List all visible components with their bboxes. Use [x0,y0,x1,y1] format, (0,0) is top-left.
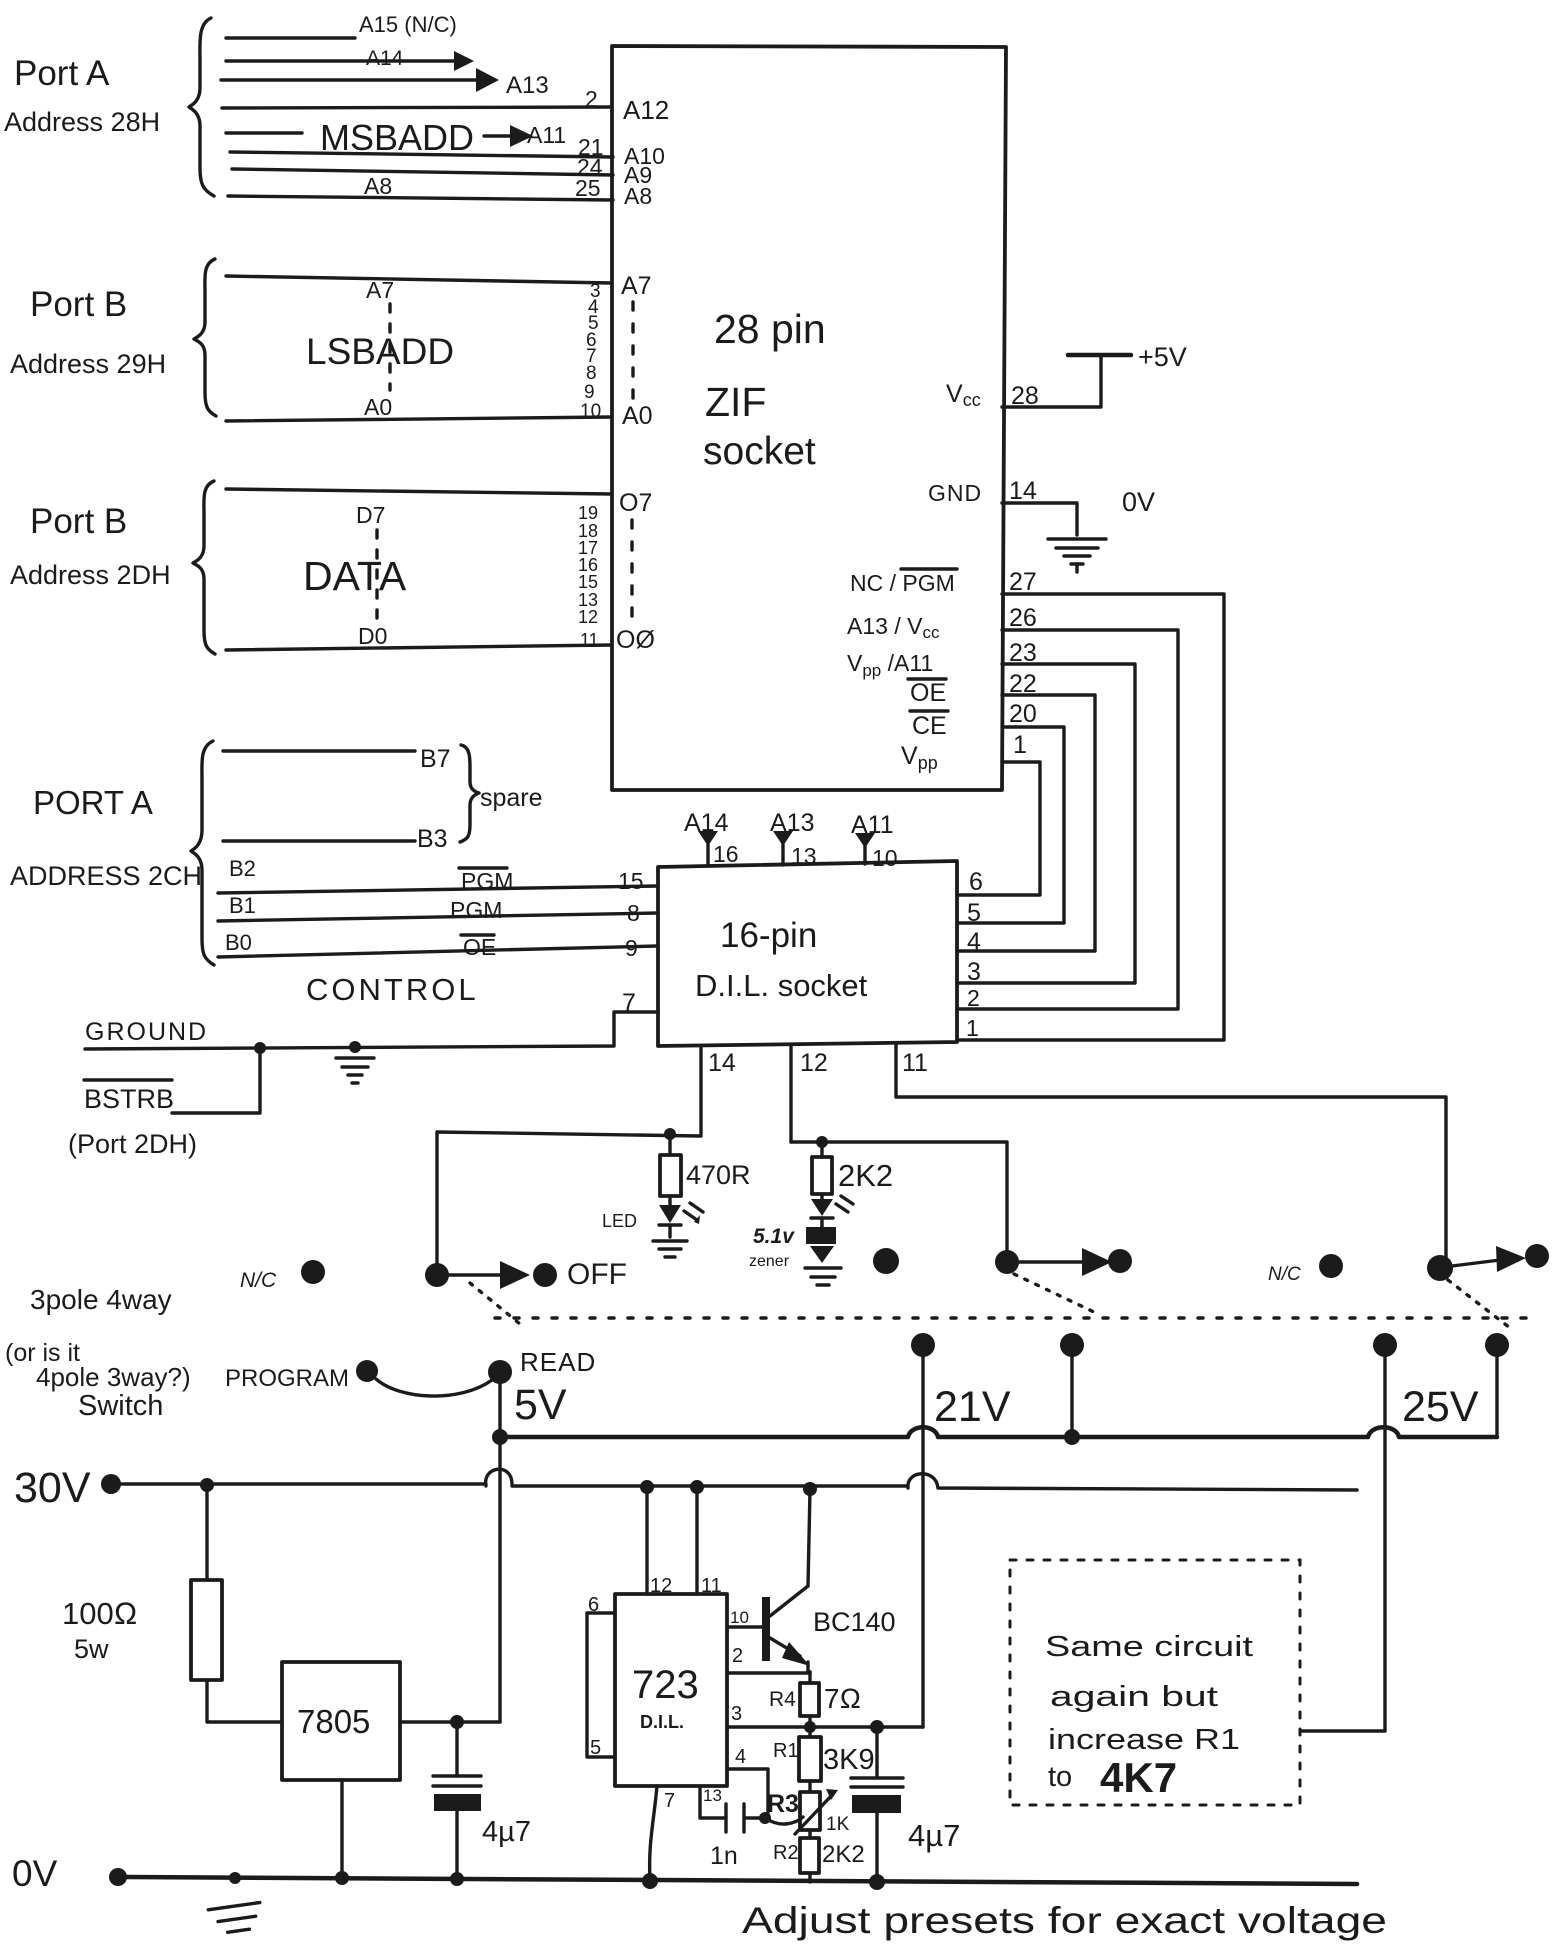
brace Port B 29H bus [194,259,216,416]
wire ZIF 20 to DIL 5 [957,727,1064,923]
capacitor C1 4u7 [433,1722,531,1878]
wire wiper link dotted 3 [1448,1280,1514,1331]
capacitor 1n [710,1804,763,1870]
svg-text:CE: CE [912,712,947,740]
resistor 2K2 [812,1142,893,1194]
junction ground symbol tap [349,1041,361,1053]
junction C2 top [870,1720,884,1734]
ground symbol 0V [1048,539,1106,572]
svg-text:GND: GND [928,480,982,506]
junction 723 pin12 tap [640,1480,654,1494]
svg-text:11: 11 [580,630,599,650]
svg-text:again but: again but [1050,1681,1218,1713]
svg-text:N/C: N/C [240,1269,277,1292]
pin 2 wire [727,1645,810,1673]
wire pin12 node to switch contact [791,1142,1007,1262]
junction cap C1 tap [450,1715,464,1729]
node contact pole2 left [873,1248,899,1274]
svg-text:PGM: PGM [450,897,502,923]
svg-text:30V: 30V [14,1464,91,1512]
brace Port B 2DH bus [193,481,215,654]
wire wiper link dotted 2 [1014,1274,1096,1313]
svg-text:4: 4 [735,1746,746,1768]
pin A11 stub [851,811,898,871]
svg-text:PORT A: PORT A [33,784,153,821]
svg-text:10: 10 [872,845,898,871]
dashed box second regulator [1010,1560,1300,1805]
wire A8 [228,196,613,200]
wire A0 to ZIF [226,417,612,421]
wire ZIF 1 to DIL 6 [957,762,1040,895]
node PORT A Address 2CH label [10,784,202,891]
wire A7 to ZIF [226,276,612,283]
regulator 723 U4 [615,1594,727,1786]
svg-text:socket: socket [703,430,816,473]
svg-text:B3: B3 [417,825,448,853]
junction 100R tap [200,1478,214,1492]
wire 5V to 7805 input [498,1437,501,1722]
svg-text:R4: R4 [769,1688,796,1711]
node OEbar label [461,934,496,960]
svg-text:3: 3 [731,1703,742,1725]
svg-text:12: 12 [800,1049,828,1077]
svg-text:D0: D0 [358,623,387,649]
ground symbol 0V rail [208,1903,263,1935]
svg-text:A0: A0 [622,402,653,430]
svg-text:27: 27 [1009,568,1037,596]
node BSTRB label [68,1080,197,1159]
resistor 470R [660,1134,751,1196]
svg-text:D7: D7 [356,502,385,528]
wire D7 to ZIF [226,489,612,494]
svg-text:OØ: OØ [616,626,655,654]
pin NC/PGM label [850,569,957,596]
svg-text:1n: 1n [710,1842,738,1870]
svg-text:10: 10 [580,401,601,422]
wire ZIF 26 to DIL 2 [957,630,1178,1009]
svg-text:R3: R3 [767,1790,799,1818]
pin A13 stub [770,809,817,869]
svg-text:Address 2DH: Address 2DH [10,560,171,590]
svg-text:B1: B1 [229,893,256,918]
svg-text:DATA: DATA [303,553,407,599]
node 28 pin ZIF socket label [703,306,826,473]
svg-text:B2: B2 [229,856,256,881]
svg-text:A0: A0 [364,394,392,420]
pin A14 stub [684,809,739,867]
node Port B Address 2DH label [10,502,171,590]
svg-text:to: to [1048,1761,1072,1793]
resistor R1 3K9 [773,1727,875,1781]
svg-text:(Port 2DH): (Port 2DH) [68,1129,197,1159]
junction C2 gnd [869,1874,885,1890]
pin 10 wire to base [727,1608,764,1627]
svg-text:11: 11 [902,1049,928,1077]
junction BSTRB on ground [254,1042,266,1054]
svg-text:25: 25 [575,175,601,201]
junction 5V rail left [492,1429,508,1445]
node rail contact 2 [1060,1333,1084,1357]
svg-text:15: 15 [618,868,644,894]
brace Port A 2CH bus [191,741,214,965]
node READ contact [488,1347,596,1384]
wire ground to DIL pin 7 [85,1012,658,1049]
pin 14 wire down [701,1046,736,1134]
preset R3 1K [767,1781,850,1835]
wire wiper link dotted 1 [470,1283,520,1324]
wire 25V contact to rail [1495,1345,1498,1437]
svg-text:GROUND: GROUND [85,1018,208,1046]
wire 723 pins 6-5 link [587,1594,615,1759]
svg-text:D.I.L. socket: D.I.L. socket [695,968,868,1003]
28 pin ZIF socket U1 [612,46,1006,790]
transistor Q1 BC140 [762,1586,896,1672]
svg-text:ZIF: ZIF [705,379,766,425]
wire collector to 30V [808,1490,810,1586]
svg-text:4µ7: 4µ7 [908,1818,960,1853]
wire 7805 ground pin [340,1780,343,1878]
wire data bus dashes [375,530,378,620]
wire bus dashes [388,304,391,390]
svg-text:R2: R2 [773,1842,799,1864]
svg-text:A7: A7 [621,272,652,300]
svg-text:25V: 25V [1402,1383,1479,1431]
svg-text:2K2: 2K2 [838,1158,893,1193]
capacitor C2 4u7 [851,1727,960,1881]
wire switch coupling dotted [495,1316,1528,1319]
wire 21V drop [921,1345,924,1727]
LED D1 [602,1196,703,1237]
wire 25V feed drop to second regulator [1302,1345,1385,1731]
regulator 7805 U3 [282,1662,400,1780]
wire READ to 5V rail [498,1384,501,1437]
junction 7805 gnd [335,1871,349,1885]
pin numbers 3-10 [580,281,601,422]
wire B3 [223,839,415,842]
svg-text:A11: A11 [527,122,566,148]
svg-text:N/C: N/C [1268,1264,1301,1285]
svg-text:BSTRB: BSTRB [84,1084,174,1114]
svg-text:0V: 0V [12,1853,58,1894]
junction 723 pin11 tap [690,1480,704,1494]
svg-text:+5V: +5V [1138,342,1187,372]
brace Port A bus [189,18,214,196]
wire 7805 output [400,1720,500,1723]
svg-text:increase R1: increase R1 [1048,1724,1240,1756]
svg-text:A15 (N/C): A15 (N/C) [359,12,457,37]
node N/C contact left [240,1260,325,1292]
node 16-pin D.I.L. socket label [695,916,868,1003]
wire 5V rail [500,1427,1497,1437]
node PROGRAM contact [225,1360,378,1392]
node 21V contact [911,1333,935,1357]
svg-text:BC140: BC140 [813,1607,896,1637]
svg-text:A13: A13 [506,72,549,99]
svg-text:20: 20 [1009,700,1037,728]
svg-text:LSBADD: LSBADD [306,331,454,372]
svg-text:ADDRESS 2CH: ADDRESS 2CH [10,861,202,891]
svg-text:Port A: Port A [14,54,110,93]
svg-text:LED: LED [602,1211,637,1231]
svg-text:14: 14 [1009,477,1037,505]
16-pin DIL socket U2 [658,861,957,1046]
node PGMbar label [459,868,513,894]
svg-text:100Ω: 100Ω [62,1596,138,1631]
svg-text:6: 6 [969,868,983,896]
wire MSB ADD [226,131,302,134]
svg-text:OE: OE [463,934,496,960]
svg-text:5: 5 [967,899,981,927]
svg-text:PROGRAM: PROGRAM [225,1365,349,1392]
svg-text:O7: O7 [619,489,652,517]
svg-text:16-pin: 16-pin [720,916,817,955]
svg-text:3K9: 3K9 [823,1744,875,1776]
svg-text:A14: A14 [366,47,404,70]
node 30V terminal [101,1474,121,1494]
svg-text:5.1v: 5.1v [753,1225,795,1248]
zener 5.1V [749,1218,836,1270]
svg-text:NC / PGM: NC / PGM [850,570,955,596]
wire B0 OEbar to DIL pin 9 [218,946,658,957]
svg-text:8: 8 [627,900,640,926]
junction C1 gnd [450,1872,464,1886]
wire ZIF A7-A0 dashes [631,302,634,398]
pin 4 wire to wiper [727,1746,803,1824]
junction R4 bottom [804,1721,816,1733]
pin CEbar label [910,711,948,740]
svg-text:14: 14 [708,1049,736,1077]
wire BSTRB to ground rail [172,1049,260,1113]
wire 723 pin 11 [695,1487,698,1594]
junction 470R tap [664,1128,676,1140]
svg-text:723: 723 [632,1663,699,1707]
svg-text:19: 19 [578,503,598,523]
svg-text:16: 16 [713,841,739,867]
wire A14 [226,51,474,71]
svg-text:5w: 5w [74,1634,109,1664]
junction 5V rail mid [1064,1429,1080,1445]
svg-text:Port B: Port B [30,502,127,541]
switch S1 pole2 wiper [995,1248,1132,1276]
wire B2 PGMbar to DIL pin 15 [218,886,658,893]
svg-text:A8: A8 [624,183,652,209]
svg-text:4K7: 4K7 [1100,1754,1177,1801]
svg-text:470R: 470R [686,1160,751,1190]
switch S1 pole3 wiper [1427,1244,1549,1281]
svg-text:7805: 7805 [297,1703,370,1740]
ground zener [805,1268,841,1285]
svg-text:7: 7 [664,1790,675,1812]
pin 3 wire [727,1703,923,1727]
svg-text:A8: A8 [364,173,392,199]
node 25V feed contact [1373,1333,1397,1357]
node N/C contact right [1268,1254,1343,1285]
svg-text:4: 4 [967,928,981,956]
svg-text:26: 26 [1009,604,1037,632]
svg-text:5: 5 [590,1737,601,1759]
junction collector 30V [803,1482,817,1496]
wire GND to 0V [1002,503,1077,535]
svg-text:1K: 1K [826,1814,850,1835]
pin OEbar label [908,679,946,707]
svg-text:13: 13 [791,843,817,869]
node 25V contact [1485,1333,1509,1357]
wire 30V rail [111,1469,1357,1490]
svg-text:A12: A12 [623,95,669,125]
svg-text:A13: A13 [770,809,814,837]
wire A10 to ZIF pin 24 [230,152,613,157]
svg-text:Address 29H: Address 29H [10,349,166,379]
junction 723 gnd [642,1873,658,1889]
svg-text:4µ7: 4µ7 [482,1816,531,1848]
wire ZIF 22 to DIL 4 [957,695,1095,951]
wire pin14 node to switch wiper [437,1132,701,1264]
svg-text:4pole 3way?): 4pole 3way?) [36,1362,191,1392]
svg-text:zener: zener [749,1253,790,1270]
svg-text:READ: READ [520,1347,596,1377]
svg-text:21V: 21V [934,1383,1011,1431]
svg-text:12: 12 [578,607,598,627]
svg-text:A11: A11 [851,811,894,839]
svg-text:1: 1 [966,1015,979,1041]
wire contact2 to rail [1070,1345,1073,1437]
diode above zener [811,1194,853,1218]
svg-text:B0: B0 [225,930,252,955]
svg-text:5V: 5V [514,1381,567,1429]
node same circuit note [1045,1631,1253,1801]
svg-text:CONTROL: CONTROL [306,972,479,1007]
junction 2K2 tap [816,1136,828,1148]
svg-text:7Ω: 7Ω [824,1683,861,1714]
wire 0V rail [118,1877,1357,1884]
wire A12 to ZIF pin 2 [222,107,612,108]
ground LED [653,1241,687,1257]
wire arrow to A11 [484,125,533,147]
wire program-read link [376,1379,492,1396]
pin 11 wire to 25V switch [896,1044,1446,1260]
junction 0V ground tap [229,1872,241,1884]
wire A13 [221,68,499,92]
svg-text:Switch: Switch [78,1390,163,1422]
svg-text:8: 8 [586,363,597,384]
svg-text:R1: R1 [773,1740,799,1762]
svg-text:7: 7 [622,989,636,1017]
svg-text:A14: A14 [684,809,729,837]
svg-text:3: 3 [967,958,981,986]
resistor R2 2K2 [773,1830,865,1882]
svg-text:OE: OE [910,679,946,707]
svg-text:PGM: PGM [461,868,513,894]
svg-text:A7: A7 [366,277,394,303]
node 0V terminal [109,1868,127,1886]
svg-text:B7: B7 [420,745,451,773]
wire D0 to ZIF [226,645,612,650]
svg-text:2: 2 [967,985,980,1011]
junction pin4-1n [759,1812,771,1824]
resistor 100R 5W [62,1485,282,1722]
node Port B Address 29H label [10,285,166,379]
svg-text:15: 15 [578,572,598,592]
svg-text:13: 13 [703,1786,722,1805]
pin 13 wire [700,1786,724,1818]
svg-text:3pole 4way: 3pole 4way [30,1284,172,1315]
svg-text:spare: spare [480,784,543,812]
node Port A Address 28H label [4,54,160,137]
svg-text:Adjust presets for exact volta: Adjust presets for exact voltage [742,1900,1387,1941]
wire ZIF 27 to DIL 1 [957,594,1224,1040]
resistor R4 7R [769,1672,861,1727]
svg-text:Vpp /A11: Vpp /A11 [847,650,933,680]
svg-text:2: 2 [732,1645,743,1667]
svg-text:Same circuit: Same circuit [1045,1631,1253,1663]
wire B1 PGM to DIL pin 8 [218,913,658,921]
wire A9 to ZIF pin 25 [232,169,613,175]
wire ZIF O7-O0 dashes [630,520,633,616]
power +5V [1068,342,1187,372]
svg-text:Port B: Port B [30,285,127,324]
svg-text:2: 2 [585,86,598,112]
svg-text:28 pin: 28 pin [714,306,826,352]
wire 723 pin 12 [645,1487,648,1594]
ground symbol [336,1058,374,1083]
wire A15 [226,36,355,39]
svg-text:0V: 0V [1122,487,1155,517]
switch S1 pole1 wiper [425,1261,557,1289]
svg-text:Address 28H: Address 28H [4,107,160,137]
pin 12 wire down [791,1045,828,1142]
brace spare [460,745,479,842]
svg-text:10: 10 [730,1608,749,1627]
pin numbers 19-11 [578,503,599,650]
wire Vcc to +5V [1002,356,1101,407]
svg-text:2K2: 2K2 [822,1841,865,1868]
wire 723 pin 7 to 0V [650,1786,676,1879]
svg-text:9: 9 [584,382,595,403]
svg-text:OFF: OFF [567,1258,627,1291]
node switch description [5,1284,191,1422]
wire ZIF 23 to DIL 3 [957,664,1135,983]
svg-text:9: 9 [625,935,638,961]
wire B7 [223,749,415,752]
svg-text:1: 1 [1013,731,1027,759]
svg-text:D.I.L.: D.I.L. [640,1712,684,1732]
